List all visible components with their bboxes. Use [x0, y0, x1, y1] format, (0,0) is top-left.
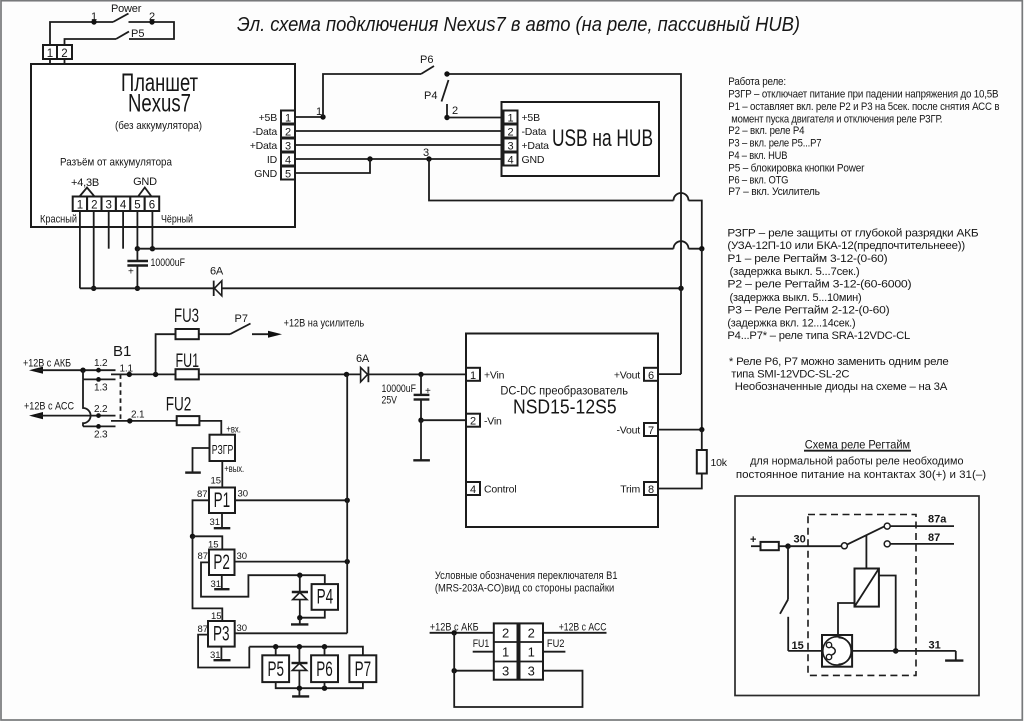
svg-text:Р5: Р5 [268, 658, 285, 681]
node FU3 branch [153, 372, 158, 377]
svg-text:РЗГР – реле защиты от глубокой: РЗГР – реле защиты от глубокой разрядки … [727, 227, 978, 239]
svg-text:ID: ID [267, 154, 278, 166]
hop arc over +5V vertical [674, 241, 689, 249]
arrow to АКБ [29, 367, 43, 374]
svg-text:2.3: 2.3 [94, 430, 108, 441]
fuse FU1 [176, 369, 199, 379]
svg-text:P4: P4 [424, 90, 437, 102]
wire GND line to the right with hop [137, 248, 701, 250]
wire 87a [890, 525, 954, 527]
pin 4 Control [466, 482, 480, 495]
svg-text:1: 1 [507, 113, 513, 125]
svg-text:10000uF: 10000uF [151, 257, 186, 269]
svg-text:+5B: +5B [522, 112, 541, 124]
relay Р3 box [208, 621, 235, 647]
caret +4,3В [80, 188, 95, 197]
svg-text:FU1: FU1 [473, 638, 490, 650]
coil top link to blade [865, 535, 867, 568]
wire branch to Р2 15 [193, 536, 223, 549]
svg-text:2: 2 [61, 48, 67, 60]
wire АКБ to table [430, 632, 494, 634]
svg-text:+12В с АСС: +12В с АСС [559, 622, 607, 634]
wire Р3 30 [235, 632, 348, 634]
svg-text:Р3: Р3 [213, 623, 230, 646]
tablet pin box 1 +5B [281, 111, 295, 124]
svg-text:1: 1 [316, 106, 322, 118]
capacitor C2 10000uF 25V [420, 374, 422, 394]
ground below C2 [420, 420, 422, 460]
node 1 on +5B [320, 114, 325, 119]
USB HUB box [502, 102, 660, 176]
svg-text:+: + [128, 267, 134, 278]
svg-text:Trim: Trim [620, 484, 640, 496]
text block relay types [727, 227, 978, 393]
node bus / +5V vertical [678, 286, 683, 291]
svg-text:Чёрный: Чёрный [161, 214, 193, 226]
hop arc over +5V vertical at y=200.5 [674, 193, 689, 200]
svg-text:Разъём от аккумулятора: Разъём от аккумулятора [60, 157, 173, 169]
svg-text:-Vin: -Vin [484, 416, 502, 428]
bus to Р5 Р6 Р7 [249, 647, 363, 656]
svg-text:+4,3В: +4,3В [71, 177, 99, 189]
node 1 (Power switch left) [91, 19, 96, 24]
svg-text:+12В на усилитель: +12В на усилитель [284, 318, 365, 330]
wire +4.3V bus left part [80, 287, 214, 289]
wire Р2 87 to Р4 coil [201, 562, 325, 596]
switch B1 common 1.1 [111, 373, 176, 375]
svg-text:FU2: FU2 [166, 395, 192, 416]
svg-text:Р4: Р4 [317, 586, 334, 609]
wire P4 bottom stub [446, 104, 448, 118]
svg-text:B1: B1 [113, 343, 131, 360]
coil with electronics (rect with diagonal) [855, 569, 879, 607]
svg-text:(УЗА-12П-10 или БКА-12(предпоч: (УЗА-12П-10 или БКА-12(предпочтительнеее… [727, 240, 965, 252]
svg-text:+Data: +Data [522, 140, 550, 152]
diode VD1 6A (cathode left) [213, 281, 215, 296]
svg-text:Р2 – реле Регтайм 3-12-(60-600: Р2 – реле Регтайм 3-12-(60-6000) [727, 279, 911, 291]
fuse at 30 input [751, 545, 761, 547]
ground at РЗГР [193, 448, 210, 472]
svg-text:Схема реле Регтайм: Схема реле Регтайм [805, 437, 910, 451]
wire node3 down and right with hop [429, 159, 702, 249]
svg-text:NSD15-12S5: NSD15-12S5 [513, 397, 617, 419]
ground Р2 31 [221, 575, 223, 589]
stub to Р5 [275, 647, 277, 656]
relay Р7 box [349, 655, 376, 682]
relay Р1 box [209, 488, 235, 514]
wire timer to 31 [852, 650, 896, 652]
timer block square [822, 635, 852, 667]
svg-text:2: 2 [285, 127, 291, 139]
node GND line right [699, 246, 704, 251]
text block Работа реле [728, 76, 999, 198]
svg-text:+5B: +5B [259, 112, 278, 124]
svg-text:3: 3 [285, 141, 291, 153]
contact line 1.3 [83, 378, 116, 380]
svg-text:GND: GND [133, 176, 157, 188]
wire battery pin1 down to +4.3V bus [79, 211, 81, 288]
wire node1 up and right to P6 [323, 74, 421, 117]
wire 87 [890, 543, 954, 545]
svg-text:+Vin: +Vin [484, 370, 505, 382]
node 30-chain branch [344, 372, 349, 377]
svg-text:FU1: FU1 [176, 351, 200, 372]
bottom bus Р5-Р7 [276, 682, 363, 688]
wire АСС from table [543, 632, 607, 634]
arrow to АСС [29, 412, 43, 419]
B1 legend table right column [520, 623, 544, 679]
svg-text:Р2: Р2 [213, 551, 230, 574]
wire Р1 87 [193, 500, 210, 536]
node 3 [426, 156, 431, 161]
svg-text:(задержка выкл. 5...7сек.): (задержка выкл. 5...7сек.) [730, 266, 860, 278]
wire tablet GND pin5 up to ID line [295, 159, 370, 173]
svg-text:25V: 25V [382, 395, 398, 407]
svg-text:1: 1 [285, 113, 291, 125]
svg-text:2: 2 [91, 200, 97, 212]
svg-text:30: 30 [237, 551, 248, 562]
node 30 [785, 543, 791, 549]
tablet pin box 5 GND [281, 167, 295, 180]
svg-text:Р3 – Реле Регтайм 2-12-(0-60): Р3 – Реле Регтайм 2-12-(0-60) [727, 305, 889, 317]
svg-text:+вых.: +вых. [224, 464, 244, 475]
node diode bottom [297, 615, 302, 620]
svg-text:+: + [750, 534, 756, 546]
svg-text:Р4 – вкл. HUB: Р4 – вкл. HUB [728, 150, 787, 162]
wire branch down to Р3 15 [193, 536, 223, 621]
svg-text:+Data: +Data [250, 140, 278, 152]
ground below Р5-Р7 [298, 688, 300, 696]
svg-text:Р7: Р7 [355, 658, 372, 681]
battery connector pin 2 [87, 197, 101, 212]
diode VD2 6A (pointing right) [361, 368, 368, 382]
diode VD4 flyback between Р5 and Р6 [298, 647, 300, 663]
svg-text:Р1: Р1 [214, 489, 231, 512]
svg-text:+12В с АСС: +12В с АСС [24, 401, 74, 413]
svg-text:Необозначенные диоды на схеме: Необозначенные диоды на схеме – на 3А [735, 381, 948, 393]
svg-text:-Data: -Data [522, 126, 547, 138]
svg-text:(без аккумулятора): (без аккумулятора) [115, 120, 202, 132]
timer circle [823, 637, 851, 665]
svg-text:USB на HUB: USB на HUB [552, 125, 653, 152]
svg-text:2.1: 2.1 [131, 410, 145, 421]
svg-text:2: 2 [528, 626, 535, 641]
arrow +12В на усилитель [252, 333, 271, 335]
wire connector pin2 stub into tablet [64, 59, 66, 82]
svg-text:(задержка выкл. 5...10мин): (задержка выкл. 5...10мин) [730, 292, 862, 304]
fuse FU2 [177, 416, 200, 425]
svg-text:(MRS-203A-CO)вид со стороны ра: (MRS-203A-CO)вид со стороны распайки [435, 583, 614, 595]
svg-text:+вх.: +вх. [226, 424, 241, 435]
svg-text:3: 3 [507, 141, 513, 153]
wire resistor to Trim pin 8 [658, 474, 702, 489]
wire battery pin2 down [93, 211, 95, 288]
caret GND [138, 188, 152, 197]
svg-text:Р6: Р6 [316, 658, 333, 681]
svg-text:30: 30 [237, 623, 248, 634]
relay contact P6 blade [421, 66, 434, 74]
ground at 31 [955, 651, 957, 660]
svg-text:2: 2 [470, 416, 476, 428]
ground Р1 31 [221, 513, 223, 528]
svg-text:15: 15 [211, 476, 222, 487]
switch in 30-15 branch [787, 546, 789, 599]
contact 87 circle [884, 541, 890, 547]
wire diode to DC-DC +Vin [368, 373, 466, 375]
svg-text:4: 4 [285, 155, 291, 167]
svg-text:Р2 – вкл. реле Р4: Р2 – вкл. реле Р4 [728, 125, 804, 137]
svg-text:4: 4 [507, 155, 513, 167]
svg-text:-Data: -Data [252, 126, 277, 138]
svg-text:Power: Power [111, 3, 142, 15]
wire P5 left side to connector pin 2 [65, 39, 117, 45]
svg-text:3: 3 [528, 664, 535, 679]
svg-text:3: 3 [423, 147, 429, 159]
svg-text:7: 7 [648, 425, 654, 437]
wire -Data tablet to USB [295, 130, 504, 132]
svg-text:FU2: FU2 [547, 638, 565, 650]
svg-text:2: 2 [502, 626, 509, 641]
USB pin box 3 +Data [504, 139, 518, 152]
svg-text:6A: 6A [356, 353, 370, 365]
wire connector pin1 stub into tablet [49, 59, 51, 82]
relay contact P4 blade [442, 80, 449, 102]
wire Power right side [129, 22, 175, 39]
B1 mechanical link dashed [120, 374, 122, 421]
svg-text:P6: P6 [420, 54, 433, 66]
ground Р3 31 [220, 647, 222, 660]
battery connector pin 5 [130, 197, 144, 212]
DC-DC converter box NSD15-12S5 [466, 334, 658, 528]
svg-text:1.3: 1.3 [94, 383, 108, 394]
svg-text:5: 5 [134, 200, 140, 212]
FU1 stub legend [473, 651, 494, 653]
node P6/P4 junction [444, 71, 449, 76]
svg-text:5: 5 [285, 169, 291, 181]
wire battery pin6 down to GND line [151, 211, 153, 249]
relay contact P5 blade [116, 32, 129, 40]
svg-text:8: 8 [648, 484, 654, 496]
relay РЗГР box [210, 435, 236, 461]
svg-text:P7: P7 [235, 313, 248, 325]
svg-text:87: 87 [197, 489, 208, 500]
capacitor C1 stem bottom [136, 266, 138, 289]
wire Р2 30 [235, 561, 348, 563]
relay Р2 box [209, 550, 235, 576]
node C2 / -Vin [418, 418, 423, 423]
svg-text:3: 3 [502, 664, 509, 679]
pin 7 -Vout [644, 423, 658, 436]
relay Р4 box [312, 584, 338, 610]
svg-text:87: 87 [198, 551, 209, 562]
wire Р4 bottom [300, 610, 325, 618]
svg-text:РЗГР – отключает питание при п: РЗГР – отключает питание при падении нап… [728, 89, 998, 101]
svg-text:Nexus7: Nexus7 [128, 90, 191, 118]
svg-text:+12В с АКБ: +12В с АКБ [23, 358, 71, 370]
battery connector pin 6 [145, 197, 160, 212]
wire РЗГР to Р1 [221, 461, 223, 488]
svg-text:15: 15 [792, 640, 804, 652]
svg-text:30: 30 [794, 534, 806, 546]
svg-text:типа SMI-12VDC-SL-2C: типа SMI-12VDC-SL-2C [731, 368, 849, 380]
svg-text:1.2: 1.2 [94, 358, 108, 369]
stub Р6 bottom [324, 682, 326, 688]
svg-text:GND: GND [254, 168, 277, 180]
svg-text:6: 6 [149, 200, 155, 212]
wire tablet +5B pin to node 1 [295, 116, 323, 118]
svg-text:1: 1 [77, 200, 83, 212]
wire 31 out [896, 650, 956, 652]
switch Power blade [113, 14, 129, 23]
svg-text:момент пуска двигателя и отклю: момент пуска двигателя и отключения реле… [731, 114, 942, 126]
relay internals dashed box [808, 515, 916, 676]
svg-text:+Vout: +Vout [614, 370, 640, 382]
wire +4.3V bus right part to +5V vertical [222, 287, 681, 289]
svg-text:6: 6 [648, 370, 654, 382]
contact dot 2.2 [96, 413, 101, 418]
svg-text:(задержка вкл. 12...14сек.): (задержка вкл. 12...14сек.) [727, 317, 855, 329]
node pin6 GND line [150, 246, 155, 251]
svg-text:1: 1 [470, 370, 476, 382]
capacitor C1 plates [127, 260, 148, 262]
B1 legend table left column [494, 623, 518, 679]
connector X1 pin 1 [43, 45, 57, 59]
svg-text:GND: GND [522, 154, 545, 166]
svg-text:2.2: 2.2 [94, 404, 108, 415]
switch B1 common 2.1 [111, 420, 177, 422]
vertical 30-chain [346, 374, 348, 633]
svg-text:для нормальной работы реле нео: для нормальной работы реле необходимо [750, 455, 963, 467]
node flyback diode top [297, 573, 302, 578]
svg-text:FU3: FU3 [174, 306, 199, 327]
svg-text:Красный: Красный [40, 214, 77, 226]
contact 87a circle [884, 523, 890, 529]
battery connector pin 3 [102, 197, 116, 212]
node Р1.87 branch [190, 534, 195, 539]
svg-text:Эл. схема подключения Nexus7 в: Эл. схема подключения Nexus7 в авто (на … [237, 13, 800, 36]
wire FU2 to РЗГР [199, 421, 221, 435]
svg-text:P5: P5 [131, 28, 144, 40]
wire battery pin5 down to GND line [136, 211, 138, 249]
contact dot 1.2 [96, 368, 101, 373]
capacitor C1 10000uF stem top [136, 249, 138, 260]
wire GND vertical down to -Vout [701, 249, 703, 430]
stub battery pin4 [122, 211, 124, 249]
svg-text:1: 1 [528, 645, 535, 660]
FU2 stub legend [543, 651, 565, 653]
relay blade 30-87a [847, 526, 884, 544]
battery connector pin 4 [116, 197, 130, 212]
svg-text:Р6 – вкл. OTG: Р6 – вкл. OTG [728, 175, 788, 187]
tablet pin box 3 +Data [281, 139, 295, 152]
node battery pin2 / bus [91, 286, 96, 291]
wire from connector pin 1 to Power switch [50, 22, 113, 59]
svg-text:Р4...Р7* – реле типа SRA-12VDC: Р4...Р7* – реле типа SRA-12VDC-CL [727, 330, 910, 342]
tablet pin box 4 ID [281, 153, 295, 166]
node capacitor C2 [418, 372, 423, 377]
wire P6 right side to +5V vertical [447, 74, 681, 374]
node 2 (Power switch right) [149, 19, 154, 24]
svg-text:87a: 87a [928, 514, 947, 526]
svg-text:постоянное питание на контакта: постоянное питание на контактах 30(+) и … [736, 469, 986, 481]
wire +Vout to +5V vertical [658, 373, 681, 375]
svg-text:31: 31 [210, 517, 221, 528]
U wire joining row 3 both sides [454, 633, 582, 707]
svg-text:30: 30 [238, 489, 249, 500]
contact line 2.3 [83, 425, 116, 427]
svg-text:1.1: 1.1 [120, 364, 134, 375]
svg-text:Р5 – блокировка кнопки Power: Р5 – блокировка кнопки Power [728, 162, 864, 174]
svg-text:Р1 – оставляет вкл. реле Р2 и: Р1 – оставляет вкл. реле Р2 и Р3 на 5сек… [728, 101, 999, 113]
svg-text:1: 1 [47, 48, 53, 60]
svg-text:* Реле Р6, Р7 можно заменить о: * Реле Р6, Р7 можно заменить одним реле [729, 356, 949, 368]
svg-text:Р1 – реле Регтайм 3-12-(0-60): Р1 – реле Регтайм 3-12-(0-60) [727, 253, 887, 265]
svg-text:2: 2 [507, 127, 513, 139]
USB pin box 4 GND [504, 153, 518, 166]
svg-text:Условные обозначения переключа: Условные обозначения переключателя В1 [435, 570, 618, 582]
node -Vout [699, 427, 704, 432]
svg-text:3: 3 [105, 200, 111, 212]
wire 1.2 to 1.3 vertical [82, 370, 84, 379]
wire -Vin [421, 419, 466, 421]
node pin5 GND line [135, 246, 140, 251]
svg-text:4: 4 [470, 484, 476, 496]
node 2 (P4 output) [444, 115, 449, 120]
wire row3 left [454, 670, 494, 672]
svg-text:Р7 – вкл. Усилитель: Р7 – вкл. Усилитель [728, 186, 820, 198]
relay Р5 box [262, 655, 289, 682]
node AKB branch [80, 368, 85, 373]
relay Р6 box [311, 655, 338, 682]
svg-text:31: 31 [929, 639, 941, 651]
USB pin box 2 -Data [504, 125, 518, 138]
wire Р3 87 to Р5-Р7 bus [198, 635, 249, 668]
USB pin box 1 +5B [504, 111, 518, 124]
pin 6 +Vout [644, 368, 658, 381]
ground below Р4 diode [299, 618, 301, 624]
wire 30 to pivot [788, 545, 841, 547]
svg-text:2: 2 [452, 105, 458, 117]
svg-text:Работа реле:: Работа реле: [728, 76, 786, 88]
wire up to FU3 [156, 334, 176, 374]
wire node2 to USB pin1 [447, 117, 504, 119]
resistor 10k [701, 430, 703, 450]
wire down with hop over ACC line [83, 379, 91, 426]
coil bottom wire to timer [838, 603, 855, 635]
tablet pin box 2 -Data [281, 125, 295, 138]
connector X1 pin 2 [57, 45, 72, 59]
battery connector pin 1 [73, 197, 87, 212]
wire ID/GND tablet pin4 to USB pin4 [295, 158, 504, 160]
pin 8 Trim [644, 482, 658, 495]
svg-text:6A: 6A [210, 266, 224, 278]
node pin5 join [367, 156, 372, 161]
pin 2 -Vin [466, 414, 480, 427]
svg-text:10000uF: 10000uF [382, 383, 417, 395]
svg-text:87: 87 [928, 532, 940, 544]
svg-text:10k: 10k [711, 457, 728, 469]
svg-text:Control: Control [484, 484, 516, 496]
stub battery pin3 [108, 211, 110, 249]
wire -Vout to GND vertical [658, 429, 702, 431]
wire FU1 to diode [199, 373, 361, 375]
svg-text:1: 1 [91, 11, 97, 23]
node 31 junction [893, 648, 899, 654]
pivot contact circle [841, 543, 847, 549]
svg-text:+: + [425, 386, 431, 397]
node C1 / bus [135, 286, 140, 291]
wire Р1 30 [235, 499, 347, 501]
